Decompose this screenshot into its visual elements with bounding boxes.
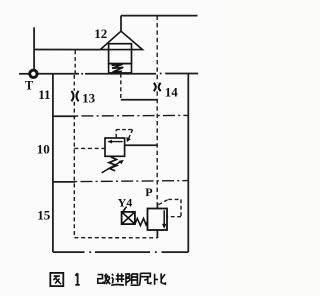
valve 10 adjustable spring zigzag [109,157,117,171]
valve 12 poppet triangle [100,31,142,49]
valve 12 spring box [109,64,132,73]
wire branch to valve 12 left wing [34,49,100,51]
valve 10 pilot arrowhead [126,137,131,142]
valve 12 body box [109,44,132,64]
valve 15 bottom port wire [156,230,158,238]
divider section 10/15 chain [75,181,188,182]
orifice 13 left arc [71,91,73,101]
valve 15 body box [148,209,168,231]
caption glyph zu [126,273,139,286]
divider section 11/10 solid start [53,115,76,117]
svg-text:11: 11 [38,87,50,102]
valve 15 spring zigzag [135,218,148,225]
svg-text:12: 12 [94,26,107,41]
svg-text:15: 15 [37,208,51,223]
svg-text:10: 10 [37,142,50,157]
orifice 14 left arc [154,83,156,91]
orifice 14 right arc [159,83,161,91]
enclosure right border [187,74,189,253]
svg-text:P: P [145,185,152,199]
wire left stub into tank port [19,73,29,75]
caption glyph jin [111,273,124,285]
pilot line T to orifice 13 [73,75,75,91]
enclosure left border [52,74,54,252]
caption glyph 1 [75,273,79,285]
caption glyph ni [139,273,151,285]
tank rail wire [38,73,156,75]
pilot line valve12 inlet wire down to rail (dashed) [74,51,76,74]
pilot P line main vertical [156,91,158,202]
tank rail chain continuation right [160,73,162,75]
svg-text:13: 13 [82,91,96,106]
pilot P line top segment [156,16,158,83]
svg-text:14: 14 [165,84,179,99]
valve 10 body box [105,138,125,156]
wire top-left vertical stub [33,27,35,69]
valve 10 left port dashed wire [74,147,105,149]
solenoid Y4 X diagonals [122,207,135,225]
divider section 11/10 chain [76,114,188,117]
wire top line [121,15,198,17]
valve 12 stem to top line [120,16,122,32]
valve 10 pilot sense dashed loop [116,130,132,141]
pilot line orifice 13 down and to valve 15 bottom [74,102,157,238]
svg-text:T: T [25,79,34,93]
valve 15 pilot dashed loop right [159,199,181,216]
valve 12 spring zigzag [112,64,124,72]
caption glyph gai [98,274,111,285]
pilot line from valve 12 spring chamber (dashed drop) [120,74,122,100]
solenoid Y4 box [122,212,135,224]
valve 10 right port wire to P line [125,144,158,146]
svg-text:Y4: Y4 [118,195,133,209]
valve 10 adjust arrow [102,162,121,173]
valve 15 top port wire [156,202,158,208]
orifice 13 right arc [76,91,78,101]
enclosure bottom border chain [53,251,188,253]
divider section 10/15 solid start [53,181,75,183]
tank port T circle [30,70,37,77]
valve 15 internal flow arrow [163,210,165,225]
caption glyph bi [155,273,166,284]
valve 10 flow arrow [110,141,123,143]
caption glyph tu (figure) [50,273,63,286]
pilot wire valve12 to P line [121,99,157,101]
